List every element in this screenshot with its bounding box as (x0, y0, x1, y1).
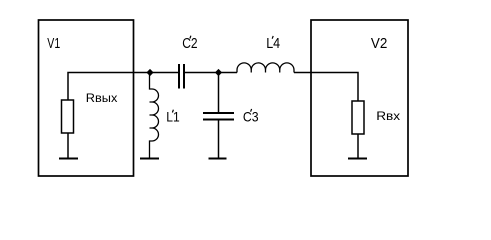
svg-text:Rвх: Rвх (376, 108, 400, 122)
prime of C'3 (251, 109, 252, 112)
svg-text:Rвых: Rвых (86, 91, 118, 105)
label L'4 (266, 35, 280, 51)
wire: Rвх bottom lead (357, 134, 359, 158)
label Rвх (376, 108, 400, 122)
node junction 1 (146, 69, 153, 76)
wire: C'2 right plate to junction 2 (184, 72, 219, 74)
label L'1 (166, 109, 179, 125)
wire: C'3 bottom lead (218, 121, 220, 159)
resistor Rвх (352, 101, 364, 134)
wire: junction 2 down to C'3 (218, 73, 220, 113)
label V1 (47, 36, 60, 52)
node junction 2 (215, 69, 222, 76)
wire: junction 2 to L'4 (219, 72, 238, 74)
prime of C'2 (190, 36, 191, 39)
wire: L'4 to Rвх top lead (294, 73, 358, 102)
resistor Rвых (62, 100, 74, 133)
label C'3 (243, 109, 259, 125)
block V2 box (311, 20, 408, 176)
capacitor C'3 (203, 112, 234, 114)
block V1 box (39, 20, 134, 176)
inductor L'4 (237, 63, 294, 73)
wire: Rвых bottom lead (67, 133, 69, 158)
capacitor C'2 (178, 64, 180, 89)
label Rвых (86, 91, 118, 105)
ground (C'3) (209, 158, 227, 160)
label V2 (371, 35, 388, 51)
wire: Rвых top lead to C'2 left plate (68, 73, 179, 101)
inductor L'1 (150, 73, 159, 159)
svg-text:V2: V2 (371, 35, 388, 51)
label C'2 (182, 35, 197, 51)
svg-text:V1: V1 (47, 36, 60, 52)
svg-text:L4: L4 (266, 35, 280, 51)
ground (Rвх) (348, 158, 367, 160)
prime of L'1 (172, 110, 173, 113)
ground (Rвых) (59, 158, 78, 160)
prime of L'4 (272, 36, 273, 39)
ground (L'1) (140, 158, 159, 160)
